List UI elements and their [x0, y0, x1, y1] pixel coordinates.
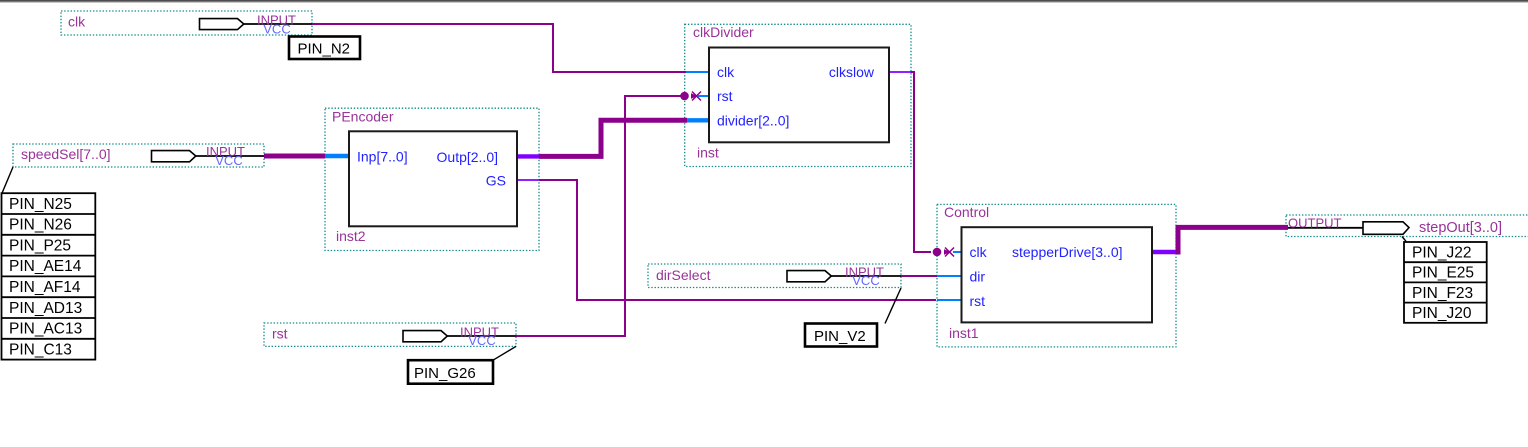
svg-text:inst: inst [697, 145, 719, 161]
svg-text:PIN_N25: PIN_N25 [9, 196, 72, 213]
svg-text:clk: clk [970, 244, 988, 260]
svg-text:stepOut[3..0]: stepOut[3..0] [1419, 220, 1502, 236]
svg-text:PIN_F23: PIN_F23 [1412, 285, 1473, 302]
svg-text:divider[2..0]: divider[2..0] [717, 113, 789, 129]
svg-text:PIN_AC13: PIN_AC13 [9, 321, 82, 338]
svg-text:rst: rst [272, 326, 288, 342]
svg-text:Outp[2..0]: Outp[2..0] [437, 149, 498, 165]
svg-text:PIN_P25: PIN_P25 [9, 237, 71, 254]
svg-text:PIN_V2: PIN_V2 [814, 328, 866, 345]
svg-text:clk: clk [68, 14, 86, 30]
svg-text:VCC: VCC [468, 333, 495, 348]
svg-text:PEncoder: PEncoder [332, 109, 394, 125]
svg-text:PIN_J20: PIN_J20 [1412, 305, 1472, 322]
svg-text:rst: rst [970, 293, 986, 309]
svg-text:PIN_C13: PIN_C13 [9, 341, 72, 358]
svg-text:clkDivider: clkDivider [693, 24, 754, 40]
svg-text:inst1: inst1 [949, 325, 979, 341]
svg-text:PIN_N2: PIN_N2 [298, 41, 351, 58]
svg-text:VCC: VCC [215, 153, 242, 168]
svg-text:PIN_E25: PIN_E25 [1412, 265, 1474, 282]
svg-text:rst: rst [717, 88, 733, 104]
svg-text:PIN_AF14: PIN_AF14 [9, 279, 81, 296]
svg-text:PIN_J22: PIN_J22 [1412, 244, 1471, 261]
svg-text:PIN_N26: PIN_N26 [9, 217, 72, 234]
svg-text:dirSelect: dirSelect [656, 267, 711, 283]
svg-text:Control: Control [944, 204, 989, 220]
svg-text:stepperDrive[3..0]: stepperDrive[3..0] [1012, 244, 1123, 260]
svg-text:clkslow: clkslow [829, 64, 875, 80]
svg-text:OUTPUT: OUTPUT [1288, 216, 1342, 231]
svg-text:PIN_G26: PIN_G26 [414, 365, 476, 382]
svg-text:Inp[7..0]: Inp[7..0] [357, 149, 408, 165]
svg-text:VCC: VCC [852, 273, 879, 288]
svg-text:inst2: inst2 [336, 228, 366, 244]
svg-text:VCC: VCC [263, 22, 290, 37]
svg-text:speedSel[7..0]: speedSel[7..0] [21, 146, 111, 162]
svg-text:PIN_AE14: PIN_AE14 [9, 258, 82, 275]
svg-text:PIN_AD13: PIN_AD13 [9, 300, 82, 317]
svg-text:GS: GS [486, 173, 506, 189]
svg-text:dir: dir [970, 269, 986, 285]
svg-text:clk: clk [717, 64, 735, 80]
